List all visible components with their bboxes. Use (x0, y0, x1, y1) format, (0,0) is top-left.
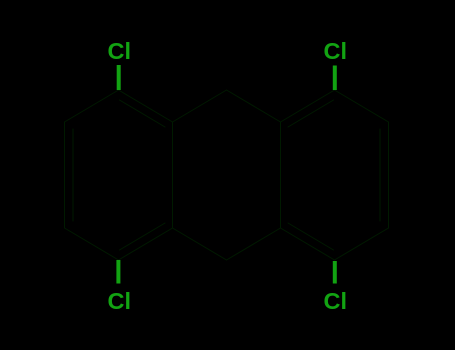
shared vertical edge right (ring2/ring3) (280, 122, 282, 228)
bond C1-Cl (top left) (117, 65, 121, 90)
svg-text:Cl: Cl (108, 38, 132, 64)
right ring: bottom-right diagonal (335, 228, 389, 260)
left ring: top-right diagonal double bond inner line (120, 100, 166, 127)
right ring: top-left diagonal double bond inner line (288, 100, 334, 127)
shared vertical edge left (ring1/ring2) (172, 122, 174, 228)
left ring: left vertical edge (outer line of double bond) (64, 122, 66, 228)
right ring: top-left diagonal (281, 90, 335, 122)
left ring: bottom-right diagonal (119, 228, 173, 260)
left ring: bottom-right diagonal double bond inner line (120, 223, 166, 250)
bond C4-Cl (bottom left) (116, 260, 120, 284)
right ring: top-right diagonal (335, 90, 389, 122)
middle ring: top-right diagonal from apex C9 (227, 90, 281, 122)
left ring: top-left diagonal (65, 90, 119, 122)
Cl labels (bright green) (108, 38, 348, 314)
left ring: left edge double bond inner line (72, 129, 74, 221)
right ring: bottom-left diagonal (281, 228, 335, 260)
right ring: right edge double bond inner line (379, 129, 381, 221)
middle ring: bottom-left diagonal to apex C10 (173, 228, 227, 260)
middle ring: top-left diagonal to apex C9 (173, 90, 227, 122)
ring skeleton (dark green) (65, 90, 389, 260)
bright green C-Cl bonds (118, 65, 334, 284)
left ring: bottom-left diagonal (65, 228, 119, 260)
middle ring: bottom-right diagonal from apex C10 (227, 228, 281, 260)
left ring: top-right diagonal (119, 90, 173, 122)
svg-text:Cl: Cl (324, 288, 348, 314)
bond C5-Cl (bottom right) (333, 261, 337, 284)
right ring: bottom-left diagonal double bond inner line (288, 223, 334, 250)
svg-text:Cl: Cl (324, 38, 348, 64)
bond C8-Cl (top right) (333, 66, 337, 91)
right ring: right vertical edge (outer line of double bond) (388, 122, 390, 228)
svg-text:Cl: Cl (108, 288, 132, 314)
